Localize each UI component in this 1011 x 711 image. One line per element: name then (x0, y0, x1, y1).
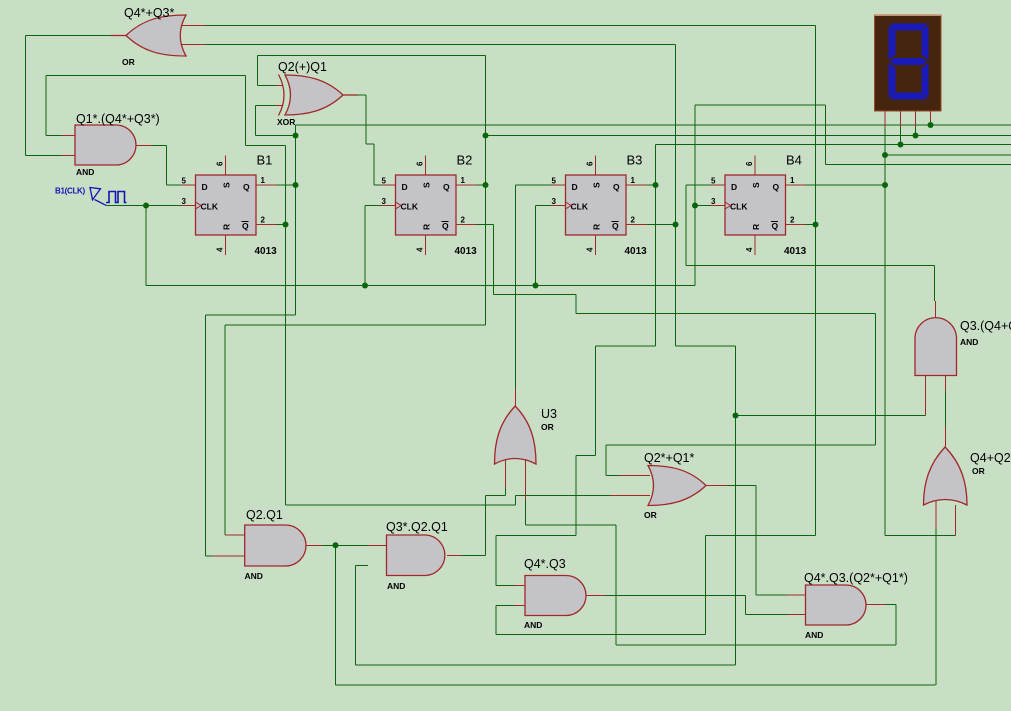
wire Q3* branch to AND Q3*.Q2.Q1 lower input (356, 664, 736, 666)
svg-text:3: 3 (382, 197, 387, 206)
wire B2 Q to AND Q2.Q1 upper input (225, 324, 486, 326)
wire B3 Q net and display bus row 3 (647, 184, 656, 186)
B4 CLK edge triangle (725, 202, 731, 209)
svg-text:Q4*+Q3*: Q4*+Q3* (124, 6, 175, 20)
wire Q1* link AND1 input from B1 /Q (45, 76, 47, 136)
svg-text:1: 1 (631, 176, 636, 185)
svg-text:B2: B2 (457, 153, 473, 168)
wire OR1 output net to AND1 lower input (26, 35, 113, 37)
svg-text:5: 5 (552, 177, 557, 186)
wire B3 /Q net (Q3*) (647, 224, 676, 226)
svg-text:R: R (222, 224, 232, 230)
svg-text:6: 6 (216, 161, 225, 166)
svg-text:CLK: CLK (730, 202, 748, 212)
pin stub B4 R (bottom, pin 4) (754, 235, 756, 255)
svg-text:AND: AND (960, 337, 978, 347)
svg-text:Q1*.(Q4*+Q3*): Q1*.(Q4*+Q3*) (76, 112, 160, 126)
pin stub OR3 inputs (935, 496, 937, 528)
wire OR1 lower input line (Q3* net, to B3 /Q) (181, 44, 206, 46)
svg-text:S: S (592, 182, 602, 188)
pin stub B3 R (bottom, pin 4) (594, 235, 596, 255)
clock source probe triangle (90, 188, 101, 200)
svg-text:OR: OR (644, 510, 657, 520)
wire OR3 output to AND2 right input (945, 391, 947, 426)
wire B1 /Q net (277, 224, 286, 226)
pin stub B1 R (bottom, pin 4) (224, 235, 226, 255)
wire Q3* branch to AND2 left input (736, 415, 926, 417)
wire B1 Q net vertical and display bus row 1 (277, 184, 296, 186)
svg-text:B1(CLK): B1(CLK) (55, 187, 86, 196)
wire clock branch B3 CLK (535, 206, 537, 286)
svg-text:Q: Q (613, 182, 620, 192)
junction B4 Q pin (882, 182, 888, 188)
B1 CLK edge triangle (196, 202, 202, 209)
B2 CLK edge triangle (396, 202, 402, 209)
svg-text:4: 4 (586, 247, 595, 252)
wire OR1 upper input line (Q4* net, to B4 /Q) (181, 25, 206, 27)
junction Q3* branch (733, 413, 739, 419)
svg-text:B1: B1 (257, 153, 273, 168)
svg-text:Q: Q (242, 221, 249, 231)
pin stub B4 D and CLK (711, 184, 726, 186)
svg-text:4013: 4013 (255, 246, 278, 257)
svg-text:Q: Q (612, 221, 619, 231)
wire AND Q2.Q1 inputs red stubs (225, 534, 245, 536)
and-gate U8 Q4*.Q3 (525, 576, 586, 616)
wire AND1 output to B1 D (136, 145, 152, 147)
pin stub B2 Q and /Q (456, 184, 477, 186)
pin stub AND4 output (866, 604, 886, 606)
svg-text:B4: B4 (786, 153, 802, 168)
pin stub display pin3 (915, 111, 917, 128)
wire AND Q4*.Q3 output to AND4 lower input (586, 594, 606, 596)
pin stub B2 R (bottom, pin 4) (424, 235, 426, 255)
svg-text:Q: Q (243, 182, 250, 192)
wire U3 output to B3 D (516, 184, 552, 186)
svg-text:Q4*.Q3: Q4*.Q3 (524, 557, 566, 571)
wire B4 D from AND2 output (686, 184, 711, 186)
pin stub U3 output (515, 389, 517, 406)
svg-text:D: D (731, 182, 737, 192)
wire XOR output to B2 D (358, 94, 366, 96)
junction display pin4 tap (928, 122, 934, 128)
svg-text:S: S (422, 182, 432, 188)
junction B3 Q pin (653, 182, 659, 188)
svg-text:4013: 4013 (784, 246, 807, 257)
pin stub OR3 output apex (945, 426, 947, 447)
display digit 8 segment G (890, 58, 927, 65)
svg-text:4013: 4013 (625, 246, 648, 257)
svg-text:Q4+Q2.Q1): Q4+Q2.Q1) (970, 451, 1011, 465)
pin stub B4 S (top, pin 6) (754, 156, 756, 176)
wire clock branch B4 CLK and exit right (694, 105, 696, 286)
display digit 8 segment C (922, 63, 929, 98)
pin stub B2 D and CLK (381, 184, 396, 186)
pin stub AND3 Q4*.Q3 inputs (514, 585, 526, 587)
wire XOR lower input from B1 Q (256, 105, 277, 107)
or-gate U11 Q4+Q2.Q1 (vertical, output up) (924, 447, 968, 505)
svg-text:1: 1 (461, 176, 466, 185)
svg-text:4: 4 (745, 247, 754, 252)
pin stub B1 D and CLK (181, 184, 196, 186)
svg-text:3: 3 (552, 197, 557, 206)
svg-text:6: 6 (745, 161, 754, 166)
wire B2 Q net and display bus row 2 (477, 184, 486, 186)
pin stub display pin4 (930, 111, 932, 121)
pin stub B4 Q and /Q (785, 184, 806, 186)
pin stub B2 S (top, pin 6) (424, 156, 426, 176)
svg-text:3: 3 (711, 197, 716, 206)
svg-text:CLK: CLK (201, 202, 219, 212)
wire Q4* run to AND Q4*.Q3 lower input (706, 535, 816, 537)
svg-text:OR: OR (972, 466, 985, 476)
junction B1 Q bus tap (293, 133, 299, 139)
svg-text:Q: Q (773, 182, 780, 192)
display 7-segment body (875, 15, 942, 111)
svg-text:D: D (402, 182, 408, 192)
pin stub B1 S (top, pin 6) (224, 156, 226, 176)
svg-text:R: R (751, 224, 761, 230)
svg-text:Q2(+)Q1: Q2(+)Q1 (278, 60, 327, 74)
svg-text:5: 5 (382, 177, 387, 186)
wire AND Q3*.Q2.Q1 output stub (447, 554, 462, 556)
pin stub U3 inputs (505, 460, 507, 487)
or-gate U3 (vertical, output up) (495, 406, 537, 464)
junction B2 Q pin (483, 182, 489, 188)
pin stub AND2 inputs down (925, 376, 927, 416)
wire Q2.Q1 output branch down to long bottom bus (335, 545, 337, 685)
svg-text:Q2.Q1: Q2.Q1 (246, 508, 283, 522)
svg-text:Q: Q (442, 221, 449, 231)
pin stub OR2 inputs (620, 475, 650, 477)
flip-flop B4 4013 body (725, 175, 786, 235)
svg-text:D: D (572, 182, 578, 192)
svg-text:5: 5 (711, 177, 716, 186)
svg-text:XOR: XOR (277, 117, 295, 127)
display digit 8 segment A (890, 24, 927, 31)
svg-text:Q4*.Q3.(Q2*+Q1*): Q4*.Q3.(Q2*+Q1*) (804, 571, 908, 585)
svg-text:6: 6 (586, 161, 595, 166)
wire OR3 left input from bottom bus (935, 528, 937, 685)
svg-text:2: 2 (631, 216, 636, 225)
junction B1 Q pin (293, 182, 299, 188)
svg-text:1: 1 (261, 176, 266, 185)
svg-text:Q3.(Q4+Q2.Q1): Q3.(Q4+Q2.Q1) (960, 319, 1011, 333)
B3 CLK edge triangle (566, 202, 572, 209)
wire B4 /Q net (Q4*) (806, 224, 816, 226)
clock source square wave symbol (106, 192, 127, 203)
junction B4 /Q pin (813, 222, 819, 228)
svg-text:AND: AND (245, 571, 263, 581)
svg-text:S: S (222, 182, 232, 188)
wire B1 Q to AND Q2.Q1 lower input (206, 314, 296, 316)
svg-text:D: D (202, 182, 208, 192)
wire clock net from B1(CLK) source (106, 205, 181, 207)
svg-text:CLK: CLK (571, 202, 589, 212)
wire B3 Q staircase to Q4*.Q3 upper input (596, 345, 656, 347)
wire B2 /Q net staircase (Q2*) (477, 224, 494, 226)
pin stub B3 Q and /Q (626, 184, 647, 186)
svg-text:Q3*.Q2.Q1: Q3*.Q2.Q1 (386, 520, 448, 534)
wire clock branch B2 CLK (364, 206, 366, 286)
wire B4 Q net and display bus row 4 (806, 184, 885, 186)
junction display pin2 tap (898, 142, 904, 148)
svg-text:Q: Q (443, 182, 450, 192)
pin stub display pin1 (884, 111, 886, 128)
and-gate U1 Q1*.(Q4*+Q3*) (75, 125, 136, 165)
display digit 8 segment D (890, 93, 927, 100)
wire OR2 Q2*+Q1* output to AND4 upper input (706, 485, 728, 487)
svg-text:4013: 4013 (455, 246, 478, 257)
wire AND Q2.Q1 output to AND Q3*.Q2.Q1 upper input (306, 544, 322, 546)
flip-flop B1 4013 body (196, 175, 257, 235)
wire B4 Q to OR3 right input (885, 535, 956, 537)
display digit 8 segment F (889, 25, 896, 60)
wire U3 right input from AND4 output loop (525, 500, 527, 525)
svg-text:B3: B3 (627, 153, 643, 168)
and-gate U7 Q3*.Q2.Q1 (387, 535, 445, 576)
svg-text:S: S (751, 182, 761, 188)
svg-text:1: 1 (790, 176, 795, 185)
xor-gate U2 Q2(+)Q1 (285, 75, 343, 115)
junction B2 Q bus tap (483, 133, 489, 139)
wire U3 left input from AND Q3*.Q2.Q1 output (462, 554, 486, 556)
junction B1 /Q pin (283, 222, 289, 228)
junction clock-B4 CLK (692, 203, 698, 209)
svg-text:2: 2 (261, 216, 266, 225)
or-gate U5 Q4*+Q3* (mirrored, output left) (126, 15, 186, 56)
svg-text:4: 4 (416, 247, 425, 252)
svg-text:U3: U3 (541, 407, 557, 421)
flip-flop B3 4013 body (566, 175, 627, 235)
and-gate U6 Q2.Q1 (245, 525, 306, 566)
svg-text:AND: AND (76, 167, 94, 177)
junction clock-B3 branch (533, 283, 539, 289)
pin stub B1 Q and /Q (256, 184, 277, 186)
junction display pin3 tap (913, 133, 919, 139)
svg-text:AND: AND (805, 630, 823, 640)
svg-text:6: 6 (416, 161, 425, 166)
svg-text:Q2*+Q1*: Q2*+Q1* (644, 451, 695, 465)
junction clock-B1CLK (143, 203, 149, 209)
junction B4 Q bus tap (882, 152, 888, 158)
and-gate U12 Q3.(Q4+Q2.Q1) (vertical, output up) (915, 318, 957, 376)
wire XOR upper input from B2 Q (258, 55, 486, 57)
svg-text:Q: Q (772, 221, 779, 231)
svg-text:CLK: CLK (401, 202, 419, 212)
svg-text:3: 3 (182, 197, 187, 206)
svg-text:OR: OR (122, 57, 135, 67)
svg-text:4: 4 (216, 247, 225, 252)
svg-text:AND: AND (387, 581, 405, 591)
flip-flop B2 4013 body (396, 175, 457, 235)
and-gate U9 Q4*.Q3.(Q2*+Q1*) (806, 585, 867, 625)
svg-text:5: 5 (182, 177, 187, 186)
svg-text:R: R (422, 224, 432, 230)
junction Q2.Q1 out branch (333, 542, 339, 548)
pin stub display pin2 (900, 111, 902, 128)
display digit 8 segment B (922, 25, 929, 60)
svg-text:AND: AND (524, 620, 542, 630)
svg-text:2: 2 (790, 216, 795, 225)
svg-text:2: 2 (461, 216, 466, 225)
svg-text:OR: OR (541, 422, 554, 432)
pin stub B3 D and CLK (551, 184, 566, 186)
pin stub AND2 output up (935, 301, 937, 317)
wire B1 /Q east run to OR Q2*+Q1* lower input (286, 504, 516, 506)
display digit 8 segment E (889, 63, 896, 98)
junction B3 /Q pin (673, 222, 679, 228)
svg-text:R: R (592, 224, 602, 230)
junction clock-B2 branch (362, 283, 368, 289)
or-gate U10 Q2*+Q1* (648, 466, 706, 506)
pin stub B3 S (top, pin 6) (594, 156, 596, 176)
